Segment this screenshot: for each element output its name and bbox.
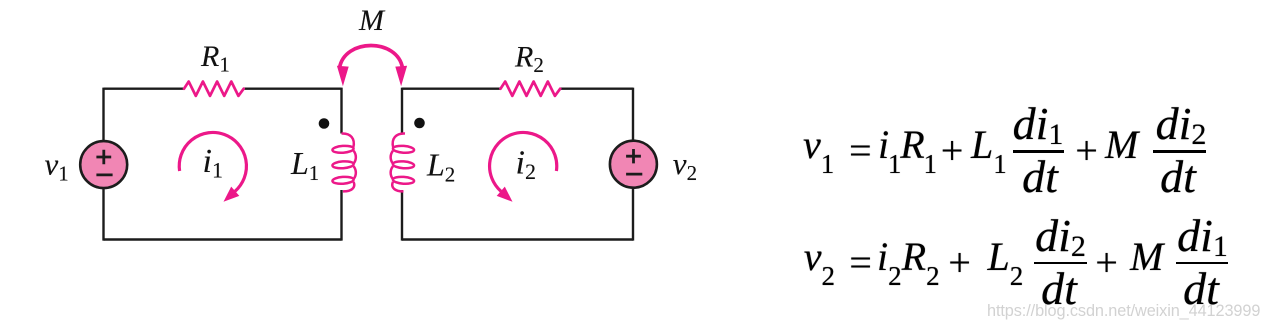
- equation 2: v2 = i2R2 + L2 di2/dt + M di1/dt: [804, 237, 835, 277]
- dot marker L1: [319, 118, 330, 129]
- inductor L1 (coil): [332, 133, 356, 191]
- svg-text:v2: v2: [673, 146, 697, 185]
- wire left loop top: [104, 87, 342, 89]
- dot marker L2: [414, 118, 425, 129]
- mutual inductance arc M: [340, 46, 403, 69]
- wire left loop bottom: [104, 238, 342, 240]
- loop current arrow i1: [179, 132, 246, 191]
- svg-text:L1: L1: [290, 145, 319, 185]
- svg-text:L2: L2: [426, 147, 455, 187]
- svg-text:v1: v1: [45, 146, 69, 185]
- wire right loop top: [402, 87, 633, 89]
- resistor R2: [501, 82, 561, 96]
- equation 1: v1 = i1R1 + L1 di1/dt + M di2/dt: [803, 125, 834, 165]
- wire left inner vertical (L1 gap): [340, 88, 342, 241]
- voltage source v1: [80, 141, 127, 188]
- voltage source v2: [610, 141, 657, 188]
- wire right inner vertical (L2 gap): [401, 88, 403, 241]
- arrowhead right of M arc: [395, 66, 407, 87]
- svg-text:R1: R1: [200, 40, 230, 77]
- svg-text:i1: i1: [203, 143, 223, 183]
- svg-text:i2: i2: [516, 145, 536, 185]
- svg-text:R2: R2: [514, 40, 544, 77]
- wire right loop right (v2 gap): [632, 88, 634, 241]
- loop current arrow i2: [490, 132, 557, 201]
- svg-text:M: M: [358, 4, 386, 37]
- resistor R1: [184, 82, 244, 96]
- wire left loop left (v1 gap): [102, 88, 104, 241]
- arrowhead left of M arc: [337, 66, 349, 87]
- inductor L2 (coil, mirrored): [391, 133, 415, 191]
- watermark: [987, 303, 1260, 319]
- wire right loop bottom: [402, 238, 633, 240]
